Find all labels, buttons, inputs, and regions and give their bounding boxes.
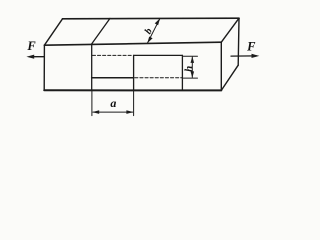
joint edge on top face <box>92 18 110 44</box>
dimension a right arrowhead <box>126 110 133 114</box>
dimension h top extension tick <box>183 55 197 57</box>
bar top-left depth edge <box>44 19 62 45</box>
bar front face right edge <box>220 42 222 90</box>
bar top back edge <box>63 17 240 20</box>
bar front face top edge <box>44 42 221 45</box>
dimension h top arrowhead <box>191 56 195 63</box>
svg-text:F: F <box>246 40 256 54</box>
joint right vertical edge on front face <box>181 55 183 90</box>
dimension h bottom extension tick <box>183 77 197 79</box>
svg-text:F: F <box>26 39 36 53</box>
dimension h bottom arrowhead <box>191 71 195 78</box>
dimension a right extension line <box>133 90 135 115</box>
bar front face left edge <box>43 45 45 90</box>
svg-text:a: a <box>110 96 116 110</box>
joint lower edge hidden (dashed) part <box>135 77 183 79</box>
joint lower edge solid part <box>92 77 134 79</box>
joint left vertical edge on front face <box>91 44 93 90</box>
dimension b lower arrowhead <box>147 37 152 44</box>
dimension h line <box>191 57 193 77</box>
force F right arrowhead <box>252 54 260 58</box>
dimension b line <box>147 18 160 43</box>
joint upper edge hidden (dashed) part <box>92 54 132 56</box>
dimension a line <box>93 111 133 113</box>
svg-text:b: b <box>143 26 155 36</box>
force F left arrow shaft <box>30 56 45 58</box>
force F left arrowhead <box>26 55 34 59</box>
svg-text:h: h <box>183 66 195 72</box>
joint upper edge solid part <box>134 54 183 56</box>
bar front face bottom edge <box>44 89 221 91</box>
dimension a left extension line <box>91 90 93 115</box>
dimension a left arrowhead <box>92 110 99 114</box>
dimension b upper arrowhead <box>155 18 160 25</box>
force F right arrow shaft <box>231 55 257 57</box>
joint middle vertical edge on front face <box>133 55 135 90</box>
bar bottom-right depth edge <box>221 65 238 90</box>
bar back-right vertical edge <box>237 18 240 65</box>
bar top-right depth edge <box>221 18 239 42</box>
